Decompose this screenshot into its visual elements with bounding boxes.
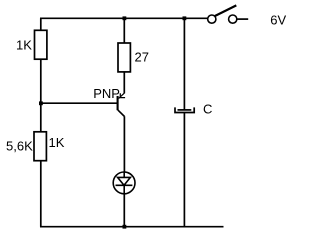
node bottom junction: [123, 225, 127, 229]
LED D1: [113, 172, 135, 194]
wire emitter lead: [123, 72, 125, 93]
svg-text:1K: 1K: [49, 135, 65, 150]
wire left branch upper: [40, 18, 42, 30]
node right top: [183, 16, 187, 20]
resistor R1 1K: [16, 30, 47, 59]
svg-text:1K: 1K: [16, 37, 32, 52]
wire base: [41, 102, 118, 104]
wire collector lead: [123, 116, 125, 172]
wire top rail: [40, 17, 208, 19]
transistor Q1 PNP: [93, 86, 125, 117]
svg-text:C: C: [203, 102, 212, 117]
svg-text:PNP: PNP: [93, 86, 120, 101]
resistor R2 5,6K: [6, 132, 65, 161]
wire right branch upper: [183, 18, 185, 110]
node base junction: [39, 101, 43, 105]
wire middle branch upper: [123, 18, 125, 43]
wire middle branch lower: [123, 194, 125, 227]
wire bottom rail: [40, 226, 224, 228]
wire right branch lower: [183, 113, 185, 227]
svg-text:27: 27: [135, 49, 149, 64]
node middle top: [123, 16, 127, 20]
resistor R3 27: [118, 43, 149, 72]
svg-text:5,6K: 5,6K: [6, 139, 33, 154]
capacitor C: [175, 102, 212, 117]
wire left branch lower: [40, 161, 42, 227]
svg-text:6V: 6V: [270, 12, 286, 27]
switch S1: [208, 5, 249, 23]
wire left branch middle: [40, 59, 42, 132]
